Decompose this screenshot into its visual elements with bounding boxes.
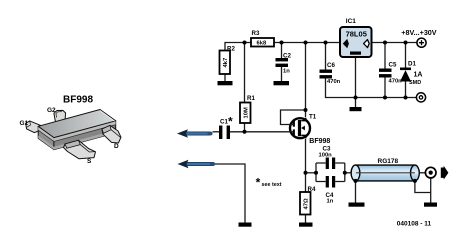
- terminal +V: [401, 28, 437, 48]
- svg-text:R4: R4: [308, 186, 316, 193]
- svg-text:1n: 1n: [283, 69, 290, 75]
- svg-text:G2: G2: [47, 107, 56, 114]
- svg-text:+8V...+30V: +8V...+30V: [401, 28, 437, 37]
- capacitor C3: [319, 146, 336, 170]
- svg-text:R1: R1: [247, 95, 255, 102]
- svg-text:1A: 1A: [414, 72, 423, 79]
- diode D1: [400, 61, 422, 87]
- svg-text:S: S: [87, 158, 92, 165]
- resistor R4: [300, 186, 316, 215]
- node IC1 gnd rail: [354, 96, 358, 100]
- wire R2 bottom: [224, 74, 226, 81]
- svg-text:100n: 100n: [319, 153, 333, 159]
- capacitor C2: [276, 53, 292, 75]
- svg-text:470n: 470n: [327, 79, 341, 85]
- ground R2: [218, 81, 233, 85]
- node C5 rail: [383, 41, 387, 45]
- capacitor C1: [219, 114, 233, 139]
- wire C2 bottom: [281, 67, 283, 81]
- T1 channel bar: [298, 120, 301, 136]
- svg-text:IC1: IC1: [346, 18, 357, 25]
- wire antenna2 to ground: [215, 164, 246, 223]
- wire R3 to IC1: [274, 42, 340, 44]
- wire coax left shield ground stem: [355, 181, 357, 203]
- package face parting line: [38, 125, 116, 142]
- node coax right shield: [413, 179, 417, 183]
- T1 substrate arrow: [301, 126, 305, 131]
- wire C5 top: [384, 43, 386, 69]
- wire IC1 to + terminal: [372, 42, 418, 44]
- T1 gate bar lower: [293, 129, 295, 135]
- capacitor C5: [379, 62, 402, 85]
- wire C3/C4 right bracket: [335, 163, 345, 182]
- ground coax left: [349, 203, 365, 207]
- node coax left shield: [354, 179, 358, 183]
- capacitor C4: [326, 176, 336, 205]
- ground antenna2: [239, 223, 252, 227]
- transistor T1 BF998: [289, 114, 330, 146]
- wire C6 bottom to 0V rail: [326, 77, 418, 98]
- resistor R2: [220, 46, 236, 75]
- package right face bevel band: [54, 121, 116, 141]
- svg-text:1n: 1n: [327, 199, 334, 205]
- wire R4 bottom: [305, 215, 307, 223]
- wire G2 bias loop: [281, 110, 306, 125]
- node R2/R1 rail: [243, 41, 247, 45]
- wire connector ground stem: [430, 178, 432, 203]
- svg-text:G1: G1: [20, 120, 29, 127]
- wire C2 top: [281, 43, 283, 59]
- node C5 rail bottom: [383, 96, 387, 100]
- output arrow: [441, 166, 449, 180]
- pin G2: [54, 110, 66, 122]
- svg-text:*: *: [256, 175, 261, 189]
- package left face bevel band: [38, 126, 54, 141]
- svg-text:6k8: 6k8: [257, 41, 267, 47]
- svg-text:R3: R3: [252, 30, 260, 37]
- svg-text:040108 - 11: 040108 - 11: [397, 220, 432, 227]
- svg-text:R2: R2: [227, 46, 235, 53]
- wire node to coax center: [345, 172, 356, 174]
- terminal 0V: [416, 93, 425, 102]
- svg-text:C3: C3: [323, 146, 331, 153]
- wire C3/C4 left bracket: [316, 163, 326, 182]
- wire coax center conductor: [356, 172, 415, 174]
- svg-text:4k7: 4k7: [223, 58, 229, 68]
- wire R1 bottom: [244, 123, 246, 132]
- svg-text:78L05: 78L05: [346, 29, 367, 38]
- svg-text:see text: see text: [262, 182, 282, 188]
- svg-text:D1: D1: [408, 61, 416, 68]
- capacitor C6: [320, 62, 341, 85]
- wire IC1 ground stem: [355, 98, 357, 108]
- package lower light band: [38, 130, 116, 150]
- wire IC1 ground pin: [355, 57, 357, 98]
- wire source node to C3/C4: [306, 172, 317, 174]
- wire C1 to T1 gate G1: [230, 131, 294, 133]
- IC1 input arrow (open): [364, 40, 370, 48]
- node C1/R1: [243, 130, 247, 134]
- wire drain vertical: [305, 43, 307, 118]
- antenna arrow 1: [177, 129, 213, 138]
- svg-text:10M: 10M: [244, 107, 250, 118]
- wire D1 top: [405, 43, 407, 68]
- node C3C4 left: [314, 171, 318, 175]
- IC1 ground tab: [350, 52, 361, 55]
- wire top rail left (R2 jog to R3): [225, 43, 251, 51]
- junction dots: [243, 41, 408, 175]
- resistor R1: [240, 95, 255, 123]
- ground C2: [274, 81, 290, 85]
- coax cable RG178: [351, 158, 419, 183]
- node D1 rail bottom: [404, 96, 408, 100]
- svg-text:47Ω: 47Ω: [304, 198, 310, 209]
- antenna arrow 2: [178, 160, 216, 169]
- node source/R4: [304, 171, 308, 175]
- node C6 rail: [324, 41, 328, 45]
- node D1 rail: [404, 41, 408, 45]
- T1 source stub: [301, 135, 306, 138]
- svg-text:BF998: BF998: [309, 138, 330, 145]
- resistor R3: [251, 30, 274, 47]
- T1 gate bar upper: [293, 121, 295, 127]
- svg-text:SMD: SMD: [409, 80, 421, 86]
- svg-text:RG178: RG178: [378, 158, 399, 165]
- wire C5 bottom: [384, 77, 386, 98]
- pin S: [64, 140, 96, 159]
- output connector: [425, 167, 436, 178]
- wire D1 bottom: [405, 82, 407, 98]
- wire antenna1 to C1: [213, 131, 220, 133]
- node C2 rail: [280, 41, 284, 45]
- BF998 package body left-front face: [38, 121, 116, 150]
- wire coax right shield to connector ground: [415, 181, 431, 193]
- wire C6 top: [325, 43, 327, 70]
- wire coax right to connector: [415, 172, 426, 174]
- pin G1: [26, 121, 41, 133]
- svg-text:BF998: BF998: [63, 95, 93, 106]
- T1 drain stub: [301, 118, 306, 121]
- IC1 output arrow (filled): [343, 39, 349, 48]
- pin D: [102, 125, 121, 143]
- ground IC1: [350, 107, 362, 111]
- svg-text:C5: C5: [389, 62, 397, 69]
- T1 gate wire stubs: [289, 125, 293, 132]
- wire T1 source down: [305, 139, 307, 192]
- svg-text:T1: T1: [309, 114, 317, 121]
- BF998 package body top face: [38, 110, 116, 138]
- svg-text:*: *: [228, 114, 233, 128]
- svg-text:C2: C2: [283, 53, 291, 60]
- svg-text:C6: C6: [327, 62, 335, 69]
- voltage regulator IC1 78L05: [340, 18, 372, 57]
- node C3C4 right: [343, 171, 347, 175]
- wire R1 top: [244, 43, 246, 103]
- BF998 package body right-front face: [54, 121, 116, 150]
- package top face sheen: [100, 111, 115, 121]
- svg-text:D: D: [114, 143, 119, 150]
- node G2 loop tap: [304, 108, 308, 112]
- see text note: [256, 175, 282, 189]
- node drain rail: [304, 41, 308, 45]
- ground R4: [299, 223, 313, 227]
- ground coax right: [424, 203, 437, 207]
